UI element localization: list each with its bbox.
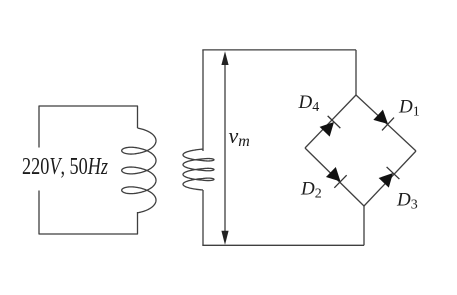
- wire: top horizontal: [202, 49, 356, 51]
- svg-text:D4: D4: [298, 92, 320, 115]
- svg-text:D2: D2: [300, 178, 322, 201]
- vm arrowhead down: [221, 231, 228, 245]
- svg-text:vm: vm: [229, 123, 250, 150]
- svg-text:220V, 50Hz: 220V, 50Hz: [22, 154, 109, 180]
- wire: source box outline: [39, 106, 138, 234]
- wire: bridge edge T-R: [356, 95, 416, 151]
- wire: top right drop to bridge: [355, 50, 357, 95]
- vm arrowhead up: [221, 51, 228, 65]
- svg-text:D1: D1: [398, 96, 420, 119]
- secondary winding: [183, 149, 214, 190]
- diode D4: [318, 116, 340, 138]
- diode D1: [372, 108, 394, 130]
- svg-text:D3: D3: [396, 189, 418, 212]
- wire: bridge edge B-R: [364, 151, 416, 206]
- label 220V 50Hz background: [20, 148, 110, 191]
- wire: bridge bottom drop: [363, 206, 365, 245]
- wire: secondary bottom lead: [202, 190, 204, 245]
- wire: bridge edge A-T: [305, 95, 356, 148]
- diode D2: [325, 166, 347, 188]
- vm measurement arrow shaft: [224, 62, 226, 233]
- wire: bridge edge A-B: [305, 148, 364, 206]
- diode D3: [377, 167, 399, 189]
- wire: bottom horizontal: [202, 244, 364, 246]
- primary winding: [122, 128, 156, 213]
- wire: secondary top lead: [202, 50, 204, 151]
